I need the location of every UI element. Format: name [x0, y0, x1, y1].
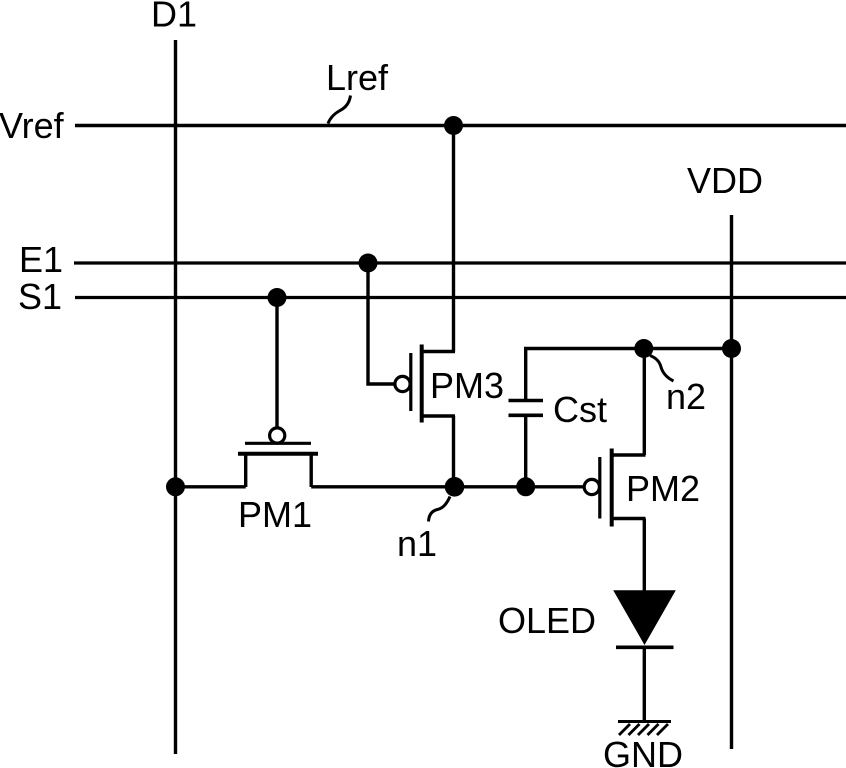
svg-text:n2: n2 [666, 376, 706, 417]
ground GND [618, 722, 671, 736]
capacitor Cst [509, 401, 544, 416]
wire E1 horizontal [74, 261, 846, 264]
leader line n2 [650, 356, 674, 382]
leader line n1 [429, 497, 451, 522]
node junction dot on VDD [722, 339, 741, 358]
transistor PM1 [238, 428, 318, 487]
node junction dot on S1 [268, 288, 287, 307]
wire OLED cathode to ground [643, 647, 646, 721]
svg-text:PM2: PM2 [626, 468, 700, 509]
svg-text:VDD: VDD [687, 160, 763, 201]
transistor PM2 [584, 449, 645, 527]
wire S1 horizontal [75, 296, 846, 299]
diode OLED [615, 591, 675, 647]
wire Cst bottom plate to n1 line [524, 415, 527, 487]
wire n2 to PM2 source [643, 349, 646, 456]
wire Vref junction to PM3 source [452, 126, 455, 352]
node n2 junction dot [634, 339, 653, 358]
leader line Lref [328, 96, 351, 124]
svg-text:Cst: Cst [553, 389, 607, 430]
node junction dot on Vref at Lref tap [444, 116, 463, 135]
wire VDD supply vertical [730, 215, 733, 749]
svg-text:Lref: Lref [326, 57, 389, 98]
svg-text:D1: D1 [151, 0, 197, 35]
wire PM2 drain to OLED anode [643, 519, 646, 593]
wire Cst top plate to n2 to VDD [526, 349, 732, 401]
node junction dot on E1 [359, 254, 378, 273]
wire D1 junction to PM1 source [176, 485, 246, 488]
wire PM3 drain to n1 [452, 416, 455, 487]
svg-text:PM3: PM3 [430, 365, 504, 406]
wire Vref horizontal line Lref [75, 124, 846, 127]
node junction dot Cst bottom on n1 line [516, 477, 535, 496]
svg-text:n1: n1 [397, 523, 437, 564]
wire D1 data line vertical [174, 40, 177, 754]
svg-text:PM1: PM1 [238, 494, 312, 535]
svg-text:E1: E1 [19, 239, 63, 280]
svg-text:OLED: OLED [498, 600, 596, 641]
svg-text:GND: GND [603, 734, 683, 768]
wire E1 junction to PM3 gate [368, 263, 394, 384]
node junction dot on D1 [166, 477, 185, 496]
wire PM1 drain to n1 to Cst to PM2 gate [311, 485, 584, 488]
svg-text:S1: S1 [18, 276, 62, 317]
svg-text:Vref: Vref [0, 105, 65, 146]
transistor PM3 [395, 345, 455, 423]
node n1 junction dot [445, 477, 465, 497]
wire S1 junction to PM1 gate [275, 298, 278, 429]
